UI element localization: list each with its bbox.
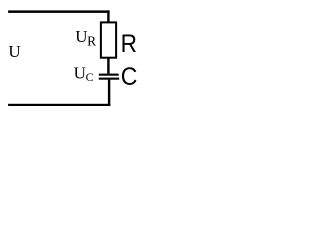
resistor R bbox=[101, 22, 116, 57]
wire bottom horizontal bbox=[8, 104, 110, 106]
wire top-right vertical drop to resistor bbox=[107, 10, 109, 22]
wire resistor to capacitor bbox=[107, 59, 109, 74]
svg-text:U: U bbox=[74, 63, 86, 82]
wire capacitor down to bottom rail bbox=[108, 80, 110, 106]
svg-text:C: C bbox=[86, 70, 94, 84]
svg-text:U: U bbox=[8, 42, 20, 61]
capacitor C top plate bbox=[99, 74, 119, 76]
svg-text:U: U bbox=[75, 27, 87, 46]
wire top horizontal bbox=[8, 10, 110, 13]
svg-text:R: R bbox=[87, 34, 96, 49]
svg-text:C: C bbox=[121, 63, 138, 91]
capacitor C bottom plate bbox=[99, 78, 119, 80]
svg-text:R: R bbox=[121, 30, 137, 58]
